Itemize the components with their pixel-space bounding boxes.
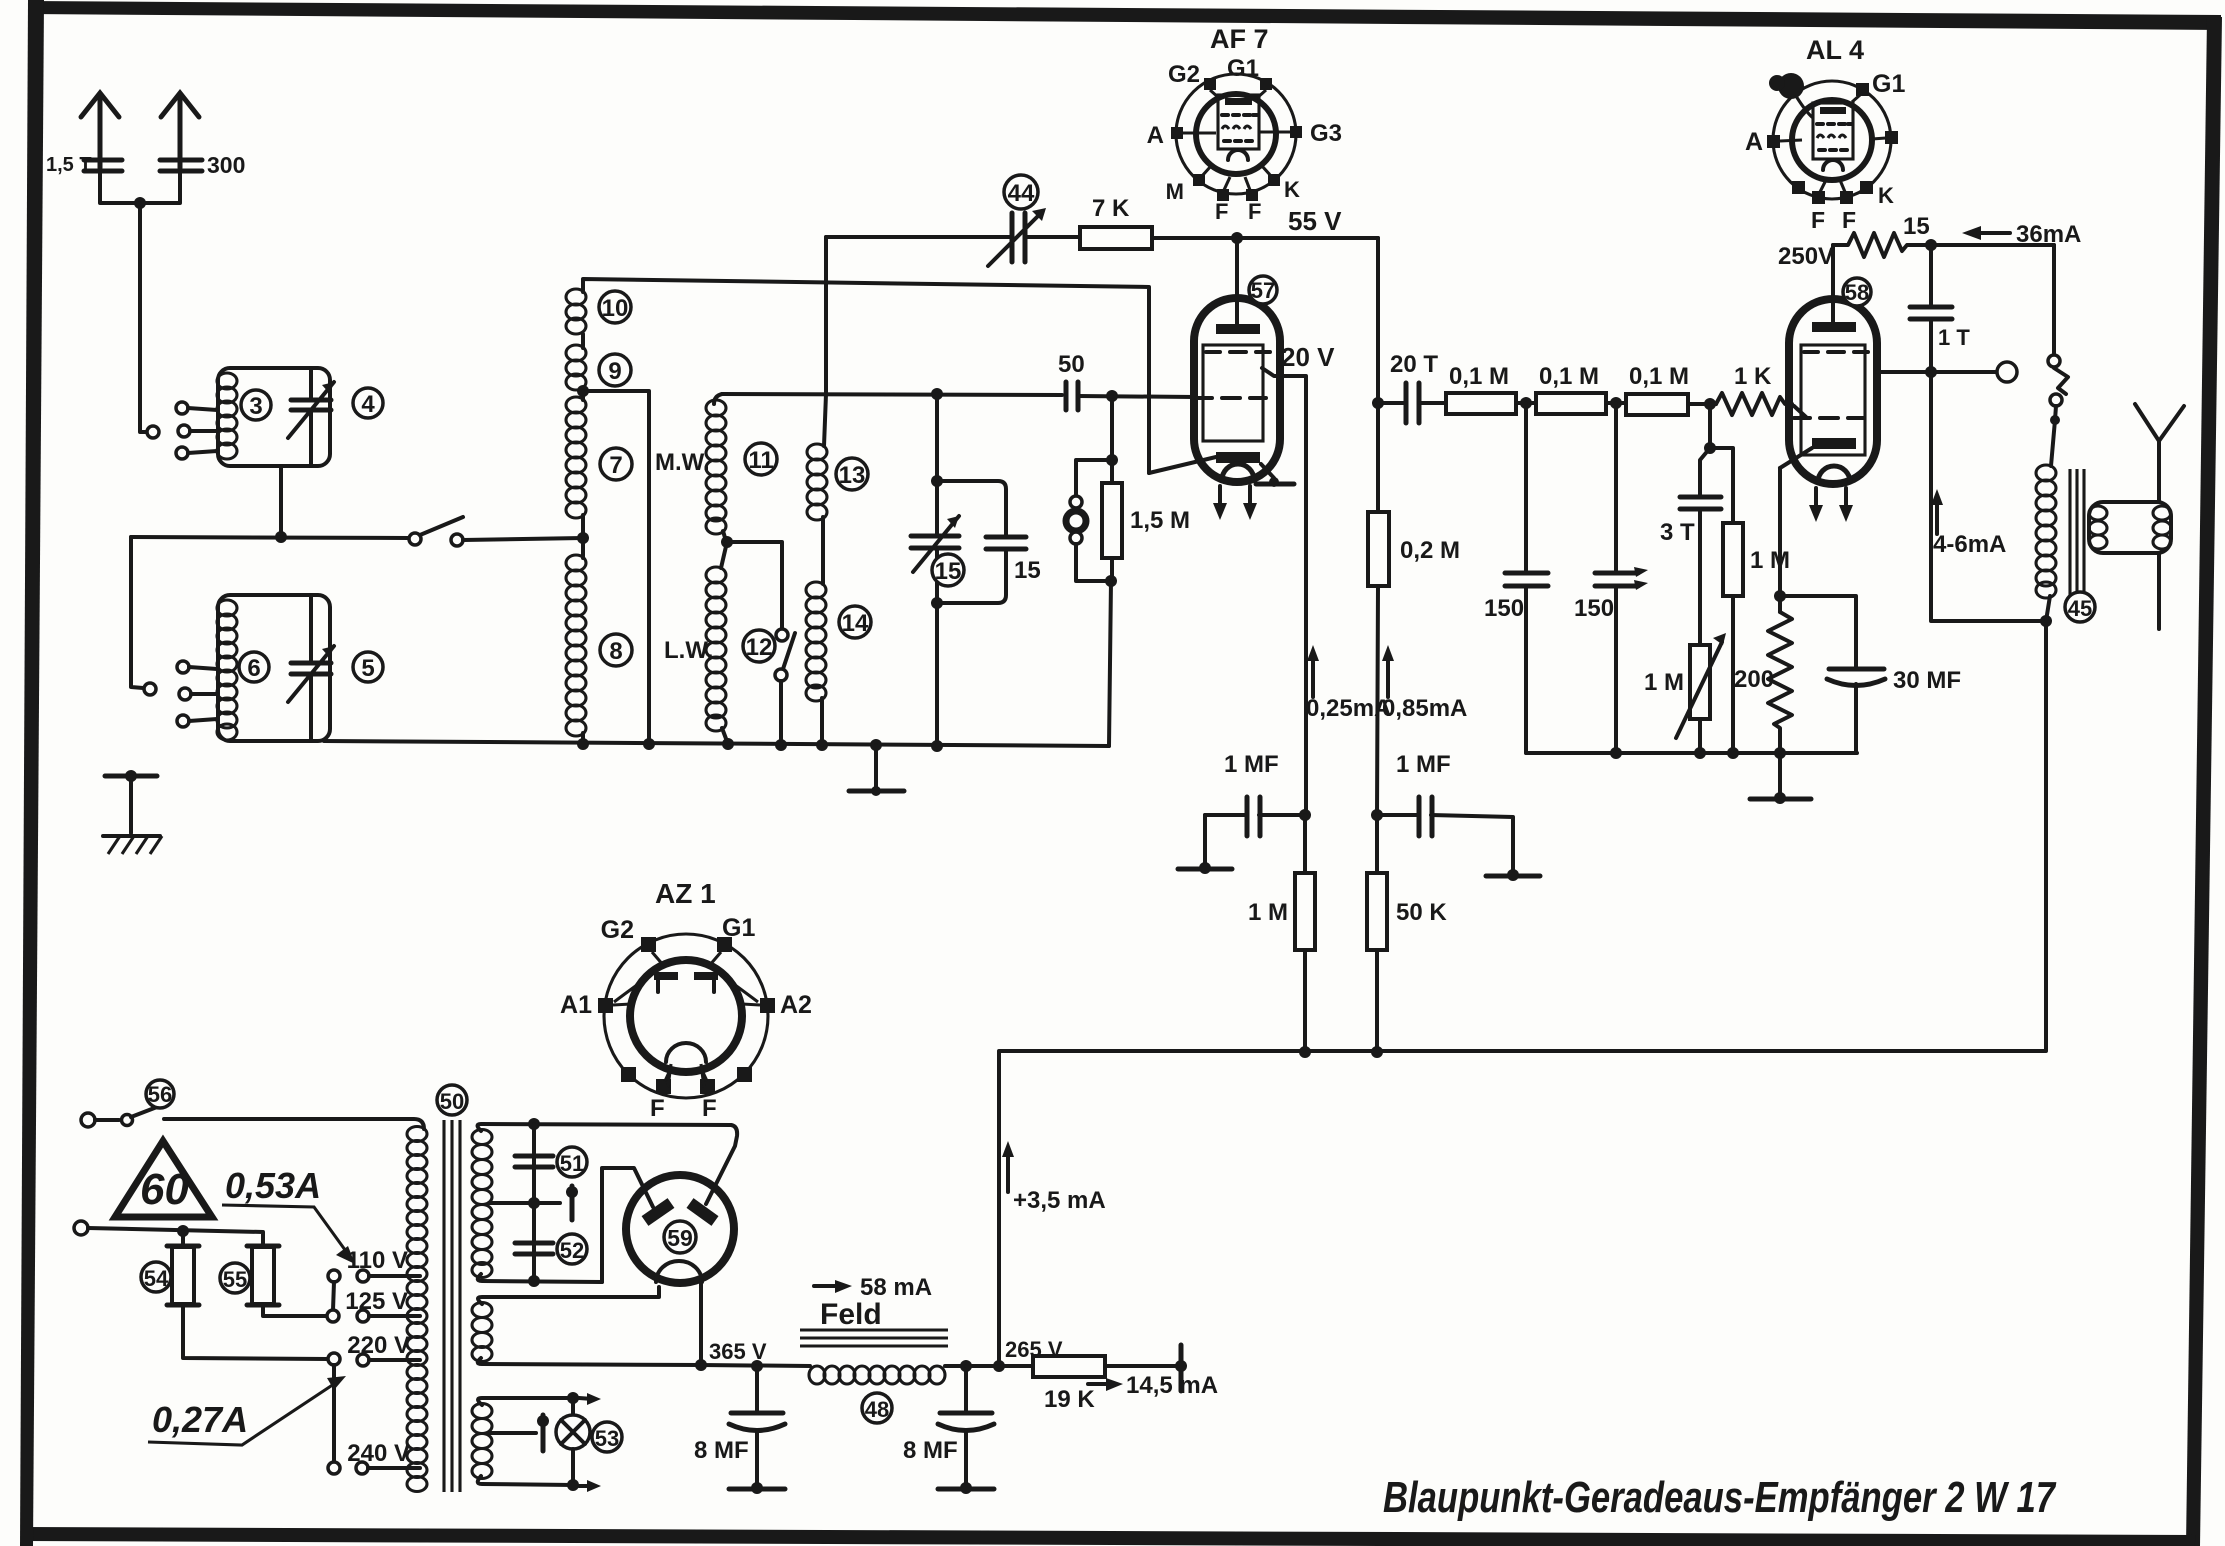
wire to LW switch [727, 542, 782, 628]
socket AZ1 pin b2 [737, 1067, 752, 1082]
svg-text:125 V: 125 V [345, 1288, 408, 1315]
transformer 50 primary [407, 1127, 427, 1492]
field coil 48 core [800, 1330, 948, 1346]
svg-text:M: M [1166, 179, 1184, 204]
wire screen 20V line [1262, 368, 1306, 815]
wire coil13-coil14 [821, 517, 825, 584]
selector contact 110 [328, 1270, 340, 1282]
tube 59 anode right [690, 1203, 715, 1221]
junction 3T branch [1704, 442, 1716, 454]
tube 58 screen dashes [1804, 350, 1868, 354]
ground 1MF left [1178, 862, 1232, 874]
svg-text:A: A [1147, 122, 1164, 149]
capacitor 8MF right [938, 1366, 994, 1487]
selector contact 220 [328, 1353, 340, 1365]
label circled 59 [664, 1221, 696, 1253]
svg-text:54: 54 [144, 1266, 169, 1291]
label circled 51 [557, 1147, 587, 1177]
svg-text:19 K: 19 K [1044, 1386, 1095, 1413]
junction bus points [577, 738, 943, 752]
socket AF7 pin F1 [1215, 177, 1230, 224]
junction coil stack bus537 [577, 532, 589, 544]
wire grid leak drop [1110, 396, 1114, 483]
arrow 36mA [1962, 226, 2010, 240]
tube 57 envelope [1194, 298, 1280, 482]
junction 1T bottom [1925, 366, 1937, 378]
svg-text:K: K [1878, 183, 1894, 208]
wire to 19K [966, 1364, 1033, 1368]
socket AL4 pin F1 [1811, 180, 1826, 233]
svg-text:150: 150 [1574, 595, 1614, 622]
svg-text:0,1 M: 0,1 M [1629, 363, 1689, 390]
wire bus drop to box6 [131, 537, 143, 688]
capacitor 1MF right [1377, 797, 1513, 874]
socket AF7 grid box [1218, 95, 1259, 149]
capacitor 15 fixed [937, 481, 1026, 603]
wire antenna join [100, 171, 180, 203]
field coil 48 [809, 1366, 966, 1384]
wire 19K end [1105, 1364, 1178, 1368]
arrow 58mA [814, 1274, 932, 1301]
svg-text:G1: G1 [1227, 55, 1259, 82]
socket AL4 pin K [1860, 181, 1894, 208]
resistor 15 zigzag [1833, 233, 2054, 257]
svg-text:AZ 1: AZ 1 [655, 878, 716, 909]
svg-text:150: 150 [1484, 595, 1524, 622]
svg-text:15: 15 [935, 558, 962, 585]
junction fuse54 [177, 1225, 189, 1237]
jack switch top [2052, 245, 2056, 353]
svg-text:250V: 250V [1778, 243, 1834, 270]
variable capacitor 4 [288, 368, 334, 466]
tube 57 screen dashes [1206, 350, 1270, 354]
junction antenna [134, 197, 146, 209]
svg-text:Feld: Feld [820, 1298, 882, 1331]
wire tap to AVC drop [583, 391, 649, 743]
AZ filament winding [472, 1287, 701, 1365]
resistor 200 zigzag [1768, 468, 1792, 753]
junction screen 1MF [1299, 809, 1311, 821]
junction box3 bus [275, 531, 287, 543]
rectifier 59 anode feed left [602, 1168, 653, 1282]
junction rail 1M [1299, 1046, 1311, 1058]
svg-text:F: F [702, 1095, 717, 1122]
coil 9 [566, 345, 586, 390]
svg-text:+3,5 mA: +3,5 mA [1013, 1187, 1106, 1214]
jack lead [2050, 406, 2060, 466]
antenna arrow 2 [161, 93, 199, 168]
socket AL4 pin G1 [1852, 70, 1905, 102]
junction rail 50K [1371, 1046, 1383, 1058]
junction chain b [1610, 397, 1622, 409]
svg-text:1,5 T: 1,5 T [46, 154, 92, 176]
socket AF7 pin G1 [1227, 55, 1272, 98]
junction chain c [1704, 398, 1716, 410]
svg-text:8 MF: 8 MF [694, 1437, 749, 1464]
grid line top [722, 394, 1062, 395]
arrow 3,5mA [1002, 1141, 1014, 1192]
svg-text:11: 11 [748, 447, 773, 474]
capacitor 8MF left [729, 1366, 785, 1487]
label 0,27A [148, 1376, 346, 1445]
fuse triangle 60 [115, 1141, 212, 1217]
coil 10 [566, 289, 586, 334]
tube 57 cathode [1216, 452, 1260, 463]
junction lamp bottom [567, 1479, 601, 1492]
svg-text:3 T: 3 T [1660, 519, 1695, 546]
svg-text:G1: G1 [722, 914, 755, 942]
tube 59 anode left [645, 1203, 671, 1221]
label circled 5 [353, 652, 383, 682]
svg-text:1 T: 1 T [1938, 325, 1970, 350]
wire 0,2M down [1377, 586, 1378, 815]
speaker fork [2135, 404, 2184, 502]
wire switch to primary [164, 1119, 424, 1129]
wire a-b [1516, 401, 1536, 405]
svg-text:57: 57 [1251, 278, 1275, 303]
capacitor 1MF left [1205, 797, 1306, 866]
svg-text:0,27A: 0,27A [152, 1399, 248, 1440]
socket AZ1 pin b1 [621, 1067, 636, 1082]
label circled 45 [2065, 592, 2095, 622]
mains terminal upper [81, 1113, 95, 1127]
capacitor 30MF [1780, 596, 1885, 753]
junction grid leak [1106, 390, 1118, 402]
socket AL4 grid box [1813, 103, 1853, 159]
label circled 44 [1004, 175, 1038, 209]
ground symbol tank [849, 745, 904, 796]
wire coil10-coil9 [581, 334, 585, 348]
border frame left [20, 0, 44, 1546]
HT center tap tick [489, 1186, 578, 1220]
svg-text:53: 53 [595, 1426, 619, 1451]
svg-text:51: 51 [560, 1151, 584, 1176]
coil 14 [806, 582, 826, 701]
socket AZ1 pin A2 [742, 991, 812, 1019]
tube 57 grid cage [1203, 345, 1263, 441]
socket AZ1 pin A1 [560, 991, 631, 1019]
svg-text:48: 48 [865, 1397, 889, 1422]
capacitor 150 b [1595, 403, 1648, 753]
border frame bottom [22, 1527, 2196, 1546]
svg-text:300: 300 [207, 152, 245, 178]
potentiometer 1M [1676, 633, 1726, 753]
tube 57 filament hump [1222, 464, 1254, 480]
ground AF bus [1750, 753, 1811, 804]
capacitor 50 [1066, 382, 1195, 410]
svg-text:52: 52 [560, 1238, 584, 1263]
rectifier 59 anode feed right [706, 1125, 737, 1204]
tube 57 grid dashes [1196, 396, 1266, 400]
coil 13 [807, 444, 827, 520]
label circled 58 [1843, 278, 1871, 306]
svg-text:14,5 mA: 14,5 mA [1126, 1372, 1218, 1399]
voice coil loops right [2153, 506, 2171, 549]
svg-text:50: 50 [440, 1089, 464, 1114]
svg-text:G2: G2 [1168, 61, 1200, 88]
svg-text:G3: G3 [1310, 120, 1342, 147]
selector contact 125 [327, 1310, 339, 1322]
label circled 9 [599, 354, 631, 386]
svg-text:220 V: 220 V [347, 1332, 410, 1359]
ground 8MF left [729, 1482, 785, 1494]
ground chassis left [103, 770, 162, 854]
selector contact 240 [328, 1462, 340, 1474]
svg-text:F: F [1215, 199, 1228, 224]
switch LW lever [783, 633, 795, 669]
tube 58 anode [1812, 245, 1856, 332]
junction 8MF left [751, 1360, 763, 1372]
svg-text:4: 4 [361, 391, 375, 418]
label 0,53A [222, 1165, 355, 1264]
svg-text:15: 15 [1903, 213, 1930, 240]
socket AF7 outer ring [1176, 74, 1296, 194]
resistor 0,1M c [1626, 394, 1688, 415]
svg-text:59: 59 [667, 1225, 693, 1251]
svg-text:A: A [1745, 128, 1763, 156]
ground bus of tank [324, 741, 1109, 746]
svg-text:20 V: 20 V [1281, 342, 1335, 372]
label circled 53 [592, 1422, 622, 1452]
svg-text:30 MF: 30 MF [1893, 667, 1961, 694]
socket AL4 anode bar [1820, 107, 1846, 114]
socket AZ1 anode leads [614, 974, 758, 1002]
output transformer 45 primary [2036, 465, 2056, 621]
switch band [409, 517, 583, 546]
arrow 14,5mA [1088, 1372, 1218, 1399]
svg-text:1 M: 1 M [1750, 547, 1790, 574]
socket AL4 filament hump [1823, 160, 1843, 170]
junction tank bottom branch [931, 597, 943, 609]
svg-text:5: 5 [361, 655, 374, 682]
capacitor 20T [1378, 383, 1446, 423]
fuse 55 [247, 1246, 326, 1316]
svg-text:3: 3 [249, 393, 262, 420]
wire feedback line [826, 235, 1010, 239]
voice coil loops left [2089, 506, 2107, 549]
coil box 3 [218, 368, 330, 466]
svg-text:1 MF: 1 MF [1396, 751, 1451, 778]
svg-text:8 MF: 8 MF [903, 1437, 958, 1464]
antenna arrow 1 [81, 93, 119, 168]
svg-text:AL 4: AL 4 [1806, 35, 1864, 65]
svg-text:55 V: 55 V [1288, 206, 1342, 236]
tube 58 envelope [1789, 299, 1877, 484]
tube 59 filament hump [656, 1261, 702, 1282]
label circled 7 [600, 448, 632, 480]
lamp 53 [556, 1398, 590, 1485]
svg-text:60: 60 [140, 1165, 189, 1214]
socket AZ1 inner ring [630, 960, 742, 1072]
socket AF7 pin K [1262, 166, 1300, 202]
mains terminal lower [74, 1221, 88, 1235]
socket AZ1 pin G2 [601, 916, 664, 966]
resistor 1K zigzag [1716, 393, 1792, 415]
label circled 48 [862, 1393, 892, 1423]
resistor 1,5M [1102, 483, 1122, 581]
resistor 19K [1033, 1356, 1105, 1377]
svg-text:110 V: 110 V [347, 1247, 408, 1274]
transformer 50 core [444, 1120, 460, 1492]
junction grid tank [931, 388, 943, 400]
junction 20T tap [1372, 397, 1384, 409]
junction AF bus points [1610, 747, 1786, 759]
border frame top [28, 1, 2221, 30]
svg-text:36mA: 36mA [2016, 221, 2081, 248]
svg-text:A2: A2 [780, 991, 812, 1019]
tap 125V [345, 1288, 420, 1322]
chassis tick 19K [1175, 1345, 1187, 1391]
svg-text:14: 14 [842, 610, 869, 637]
selector jumper upper [333, 1282, 334, 1310]
junction 365V [695, 1359, 707, 1371]
junction transformer bottom [2040, 615, 2052, 627]
svg-text:A1: A1 [560, 991, 592, 1019]
label circled 57 [1249, 276, 1277, 304]
ground 1MF right [1486, 869, 1540, 881]
label circled 8 [600, 634, 632, 666]
jack contact lower [2050, 394, 2062, 406]
junction coil11 bottom [721, 536, 733, 548]
svg-text:1 M: 1 M [1248, 899, 1288, 926]
coil box 6 [218, 595, 330, 741]
socket AZ1 anode right [694, 972, 718, 992]
label circled 54 [141, 1262, 171, 1292]
terminals coil 3 [176, 402, 217, 459]
label circled 15 [932, 554, 964, 586]
svg-text:56: 56 [148, 1082, 172, 1107]
socket AF7 filament hump [1228, 150, 1248, 160]
socket AL4 outer ring [1773, 81, 1891, 199]
tube 58 cathode [1812, 438, 1856, 449]
svg-text:6: 6 [247, 655, 260, 682]
socket AZ1 anode left [654, 972, 678, 992]
label circled 10 [599, 291, 631, 323]
tube 57 anode [1216, 238, 1260, 334]
svg-text:F: F [1248, 199, 1261, 224]
wire LW switch to bus [779, 681, 783, 745]
wire trimmer feed down [824, 237, 826, 446]
coil 6 [217, 600, 237, 740]
svg-text:M.W.: M.W. [655, 449, 710, 476]
variable capacitor 5 [288, 595, 334, 741]
label circled 50 [437, 1085, 467, 1115]
capacitor 1T [1910, 245, 1952, 372]
svg-text:0,1 M: 0,1 M [1449, 363, 1509, 390]
svg-text:Blaupunkt-Geradeaus-Empfänger: Blaupunkt-Geradeaus-Empfänger 2 W 17 [1383, 1473, 2057, 1522]
svg-text:F: F [1842, 207, 1856, 233]
tube 59 cathode lead [699, 1283, 703, 1365]
svg-text:1 MF: 1 MF [1224, 751, 1279, 778]
junction 1T tap [1925, 239, 1937, 251]
capacitor 150 a [1505, 403, 1548, 753]
svg-text:20 T: 20 T [1390, 351, 1438, 378]
socket AF7 anode bar [1225, 98, 1252, 105]
selector jumper lower [332, 1365, 336, 1462]
socket AF7 grid rows [1222, 115, 1257, 141]
label circled 12 [743, 630, 775, 662]
svg-text:0,53A: 0,53A [225, 1165, 321, 1206]
svg-text:50: 50 [1058, 351, 1085, 378]
label circled 11 [745, 443, 777, 475]
wire chain c drop [1708, 404, 1712, 448]
wire 1,5M to bus [1109, 581, 1111, 746]
B plus line [701, 1365, 810, 1366]
socket AL4 pin A [1745, 128, 1802, 156]
svg-text:G2: G2 [601, 916, 634, 944]
phone jack [1066, 460, 1112, 581]
junction below coil 9 [577, 385, 589, 397]
wire lower terminal [88, 1228, 263, 1245]
svg-text:9: 9 [608, 358, 621, 385]
socket AF7 inner ring [1196, 94, 1276, 174]
tube 57 filament arrows [1213, 486, 1257, 520]
capacitor 52 [515, 1243, 553, 1254]
wire output tap [1877, 370, 1996, 374]
wire antenna bus left [131, 537, 409, 538]
switch LW lower contact [775, 669, 787, 681]
output transformer 45 core [2070, 469, 2084, 597]
tube 58 grid cage [1801, 345, 1865, 455]
socket AZ1 filament hump [666, 1043, 706, 1062]
tube 58 cathode lead [1780, 448, 1812, 468]
arrow 4-6mA [1931, 489, 1943, 534]
tap 220V [347, 1332, 420, 1366]
resistor 0,1M a [1446, 393, 1516, 414]
label circled 6 [239, 652, 269, 682]
junction 265V [993, 1360, 1005, 1372]
coil 3 [217, 373, 237, 459]
label circled 3 [241, 390, 271, 420]
svg-text:AF 7: AF 7 [1210, 24, 1269, 54]
junction chain a [1520, 397, 1532, 409]
coil 11 MW [706, 394, 726, 541]
socket AZ1 filament leads [668, 1064, 704, 1087]
capacitor 3T [1680, 448, 1721, 645]
svg-text:L.W.: L.W. [664, 637, 713, 664]
border frame right [2186, 17, 2222, 1546]
speaker stem lower [2157, 553, 2161, 629]
lamp winding tap tick [490, 1415, 549, 1451]
socket AZ1 pin F1 [650, 1068, 671, 1122]
terminal antenna upper [147, 426, 159, 438]
jack nose [2054, 368, 2068, 394]
label circled 56 [146, 1080, 174, 1108]
socket AZ1 pin F2 [700, 1068, 717, 1122]
svg-text:F: F [1811, 207, 1825, 233]
svg-text:12: 12 [746, 634, 773, 661]
lamp winding [472, 1398, 573, 1485]
svg-text:7: 7 [609, 452, 622, 479]
speaker voice coil box [2089, 502, 2171, 553]
arrow 0,85mA [1382, 645, 1394, 697]
svg-text:45: 45 [2068, 596, 2092, 621]
tube 59 envelope [626, 1175, 734, 1283]
socket AF7 pin A [1147, 122, 1216, 149]
junction jack top [1106, 454, 1118, 466]
wire 7K to 55V corner [1152, 236, 1378, 240]
svg-text:4-6mA: 4-6mA [1933, 531, 2006, 558]
socket AL4 inner ring [1792, 100, 1872, 180]
svg-text:G1: G1 [1872, 70, 1905, 98]
label circled 13 [836, 458, 868, 490]
label circled 55 [220, 1263, 250, 1293]
resistor 1M coupling [1710, 448, 1743, 753]
svg-text:8: 8 [609, 638, 622, 665]
wire c-1K [1690, 402, 1716, 406]
socket AL4 pin right [1872, 131, 1898, 144]
junction lamp top [567, 1392, 601, 1405]
